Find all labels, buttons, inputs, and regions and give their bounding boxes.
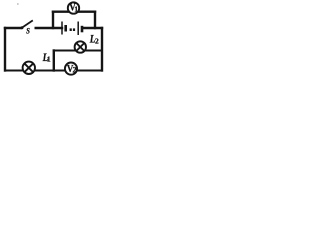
- battery cell 2 short thick plate: [81, 26, 84, 33]
- wire lamp L2 row: [54, 50, 102, 52]
- battery dashes: [70, 28, 72, 31]
- svg-text:1: 1: [74, 5, 78, 13]
- battery cell 1 long plate: [61, 22, 63, 35]
- lamp L2 label: [89, 33, 99, 46]
- battery cell 2 long plate: [77, 22, 79, 36]
- wire bottom row: [5, 70, 102, 72]
- voltmeter V1: [68, 2, 79, 14]
- lamp L1: [23, 62, 35, 74]
- background: [0, 0, 105, 81]
- wire right edge: [101, 28, 103, 71]
- lamp L1 label: [42, 51, 51, 64]
- voltmeter V2: [65, 63, 77, 76]
- wire top-left to switch: [5, 27, 21, 29]
- wire left edge: [4, 28, 6, 71]
- svg-text:2: 2: [95, 36, 99, 45]
- wire parallel-branch left vertical: [53, 51, 55, 71]
- svg-text:S: S: [26, 26, 30, 36]
- scan speck: [17, 3, 19, 5]
- wire V1 branch left vertical: [52, 12, 54, 28]
- svg-text:1: 1: [47, 55, 51, 64]
- wire V1 branch right vertical: [94, 12, 96, 28]
- wire switch to battery: [36, 27, 62, 29]
- switch S blade: [23, 20, 33, 27]
- lamp L2: [75, 41, 86, 52]
- switch S pivot: [21, 26, 24, 29]
- wire V1 top row: [53, 10, 95, 12]
- svg-text:2: 2: [73, 66, 77, 75]
- wire battery to right edge: [83, 27, 102, 29]
- battery cell 1 short thick plate: [64, 25, 67, 32]
